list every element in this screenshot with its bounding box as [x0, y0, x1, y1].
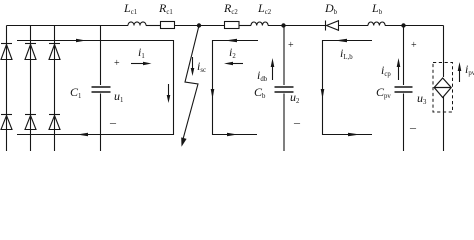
PV dashed enclosure — [433, 63, 453, 113]
loop i2 bottom edge arrow — [227, 133, 238, 137]
svg-text:u1: u1 — [114, 89, 123, 104]
svg-text:ipv: ipv — [465, 62, 474, 77]
node dot C_pv tap — [401, 23, 405, 27]
diode lower leg2 — [25, 114, 36, 116]
svg-text:iL,b: iL,b — [340, 46, 353, 61]
wire — [175, 25, 225, 27]
svg-text:Db: Db — [324, 1, 338, 16]
loop i_Lb bottom edge arrow — [348, 133, 360, 137]
resistor R_c1 — [161, 22, 175, 29]
bridge leg 1 — [6, 26, 8, 152]
svg-text:Cb: Cb — [254, 85, 266, 100]
loop i2 rectangle open right — [213, 41, 259, 135]
capacitor C_pv plates — [395, 86, 413, 88]
node dot C_b tap — [281, 23, 285, 27]
bridge leg 2 — [30, 26, 32, 152]
diode upper leg1 — [1, 43, 12, 45]
inductor L_c2 — [251, 22, 268, 26]
svg-text:idb: idb — [257, 68, 268, 83]
loop i2 left edge arrow — [211, 89, 215, 99]
capacitor C_pv branch wire bottom — [403, 94, 405, 152]
current arrow i1 — [131, 63, 144, 65]
capacitor C_b plates — [275, 86, 294, 88]
capacitor C1 branch wire bottom — [100, 94, 102, 152]
loop i1 top edge arrow — [76, 39, 86, 43]
loop i_Lb rectangle open right — [323, 41, 373, 135]
capacitor C_pv branch wire top — [403, 26, 405, 86]
wire top rail left of L_c1 — [7, 25, 129, 27]
resistor R_c2 — [225, 22, 240, 29]
svg-text:i1: i1 — [138, 45, 145, 60]
PV current source diamond — [434, 78, 451, 98]
current arrow i2 — [232, 63, 243, 65]
svg-text:+: + — [288, 40, 294, 51]
wire — [239, 25, 251, 27]
diode lower leg1 — [1, 114, 12, 116]
loop i_Lb top edge arrow — [335, 39, 347, 43]
capacitor C1 plates — [92, 86, 111, 88]
svg-text:Lb: Lb — [371, 1, 383, 16]
svg-text:Rc2: Rc2 — [223, 1, 238, 16]
capacitor C1 branch wire top — [100, 26, 102, 86]
bridge leg 3 — [54, 26, 56, 152]
svg-text:–: – — [293, 115, 301, 129]
short-circuit lightning bolt i_sc — [183, 26, 200, 142]
PV source branch wire top — [443, 26, 445, 78]
loop i1 inner down arrow — [168, 84, 170, 96]
current arrow i_db — [272, 66, 274, 80]
svg-text:–: – — [409, 120, 417, 134]
svg-text:icp: icp — [381, 63, 391, 78]
wire — [268, 25, 325, 27]
svg-text:+: + — [114, 58, 120, 69]
svg-text:i2: i2 — [229, 45, 236, 60]
diode upper leg3 — [49, 43, 60, 45]
svg-text:u3: u3 — [417, 91, 427, 106]
capacitor C_b branch wire top — [283, 26, 285, 86]
diode upper leg2 — [25, 43, 36, 45]
loop i2 top edge arrow — [225, 39, 237, 43]
PV source branch wire bottom — [443, 97, 445, 151]
current arrow i_cp — [398, 66, 400, 80]
svg-text:+: + — [411, 40, 417, 51]
diode lower leg3 — [49, 114, 60, 116]
svg-text:isc: isc — [197, 59, 206, 74]
inductor L_c1 — [128, 22, 146, 26]
svg-text:Cpv: Cpv — [376, 85, 391, 100]
diode D_b — [325, 21, 327, 31]
loop i_Lb left edge arrow — [321, 89, 325, 99]
node dot (short-circuit tap) — [197, 23, 201, 27]
wire — [339, 25, 369, 27]
current arrow i_pv — [459, 70, 461, 82]
loop i1 bottom edge arrow — [77, 133, 88, 137]
capacitor C_b branch wire bottom — [283, 94, 285, 152]
svg-text:C1: C1 — [70, 85, 81, 100]
wire to right corner — [385, 25, 444, 27]
svg-text:Lc2: Lc2 — [257, 1, 272, 16]
i_sc annotation arrow — [192, 57, 194, 69]
svg-text:Rc1: Rc1 — [158, 1, 173, 16]
wire — [146, 25, 160, 27]
PV source inner arrow — [434, 87, 451, 89]
loop i1 rectangle open left — [17, 41, 174, 135]
inductor L_b — [368, 22, 385, 26]
svg-text:u2: u2 — [290, 90, 300, 105]
svg-text:Lc1: Lc1 — [123, 1, 137, 16]
svg-text:–: – — [109, 115, 117, 129]
